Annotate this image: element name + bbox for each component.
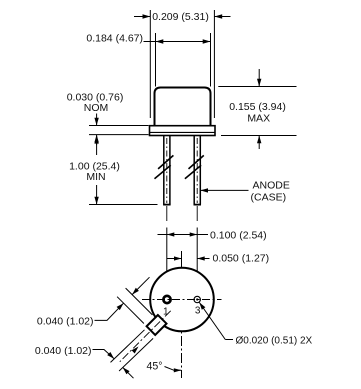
tab dim1 leader arrow xyxy=(95,303,124,320)
svg-text:MAX: MAX xyxy=(247,113,270,125)
dim 0.209 left arrow xyxy=(134,14,150,18)
dim 0.050 right part xyxy=(197,256,209,260)
tab centerline xyxy=(120,311,171,362)
svg-text:Ø0.020 (0.51) 2X: Ø0.020 (0.51) 2X xyxy=(236,335,313,346)
dim 0.030 bottom arrow xyxy=(94,135,98,145)
anode leader xyxy=(200,188,248,192)
lead 1 centerline below xyxy=(166,206,168,221)
horizontal centerline xyxy=(142,299,222,301)
hole ext line right xyxy=(196,228,198,297)
dim 0.155 top arrow xyxy=(257,69,261,87)
svg-text:ANODE: ANODE xyxy=(253,180,290,192)
tab side ext line NW xyxy=(111,330,145,363)
dim 0.209 right arrow xyxy=(214,14,230,18)
45 deg arrowhead on tab centerline xyxy=(132,347,139,354)
svg-text:0.040 (1.02): 0.040 (1.02) xyxy=(35,345,92,357)
svg-text:0.100 (2.54): 0.100 (2.54) xyxy=(210,230,267,242)
lead 2 break marks xyxy=(189,155,204,169)
dim 0.155 ext line bottom xyxy=(221,135,297,137)
vertical centerline xyxy=(181,268,183,378)
svg-text:0.184 (4.67): 0.184 (4.67) xyxy=(86,33,143,45)
lead dia leader xyxy=(199,302,233,339)
dim 0.155 ext line top xyxy=(218,86,296,88)
lead 2 centerline xyxy=(196,138,198,203)
tab dim2 SE arrow xyxy=(123,367,134,378)
svg-text:NOM: NOM xyxy=(84,102,109,114)
svg-text:45°: 45° xyxy=(147,361,163,373)
dim 0.030 top arrow xyxy=(94,114,98,126)
center tick xyxy=(181,251,183,268)
tab dim2 leader arrow xyxy=(93,350,115,359)
lead 2 body xyxy=(194,136,202,205)
45 deg leader xyxy=(165,367,182,373)
svg-text:0.209 (5.31): 0.209 (5.31) xyxy=(152,11,209,23)
svg-text:0.155 (3.94): 0.155 (3.94) xyxy=(229,101,286,113)
dim 0.030 ext lines xyxy=(89,125,149,127)
tab dim1 inner arrow xyxy=(132,277,149,294)
dim 0.184 dim line xyxy=(144,39,211,43)
tab dim ext line A xyxy=(126,288,153,315)
svg-text:1: 1 xyxy=(163,307,169,318)
bottom view circle xyxy=(150,268,214,332)
dim 0.050 left part xyxy=(167,256,182,260)
tab side ext line SE xyxy=(119,338,153,371)
dim 1.00 min: top arrow xyxy=(94,136,98,155)
dim 0.100 xyxy=(158,232,209,236)
hole ext line left xyxy=(166,228,168,296)
lead 1 break marks xyxy=(158,155,173,169)
flange base xyxy=(150,126,216,136)
flange mid line xyxy=(150,131,215,133)
dim 0.209 ext line left xyxy=(149,10,151,118)
svg-text:3: 3 xyxy=(195,306,201,317)
tab dim ext line B xyxy=(117,297,144,324)
dim 1.00 min: bottom arrow xyxy=(94,185,98,205)
hole 1 xyxy=(163,296,170,303)
can cap body xyxy=(155,88,211,128)
dim 0.184 ext line left xyxy=(155,33,157,87)
dim 1.00 ext line bottom xyxy=(89,204,158,206)
index tab xyxy=(147,315,167,335)
dim 0.184 ext line right xyxy=(210,33,212,87)
lead 2 centerline below xyxy=(196,206,198,221)
hole 3 xyxy=(194,296,200,302)
svg-text:0.050 (1.27): 0.050 (1.27) xyxy=(213,253,270,265)
dim 0.155 bottom arrow xyxy=(257,136,261,150)
svg-text:MIN: MIN xyxy=(86,171,105,183)
lead 1 centerline xyxy=(166,138,168,203)
svg-text:(CASE): (CASE) xyxy=(251,192,287,204)
svg-text:0.040 (1.02): 0.040 (1.02) xyxy=(37,316,94,328)
dim 0.209 ext line right xyxy=(213,10,215,118)
lead 1 body xyxy=(163,136,171,205)
